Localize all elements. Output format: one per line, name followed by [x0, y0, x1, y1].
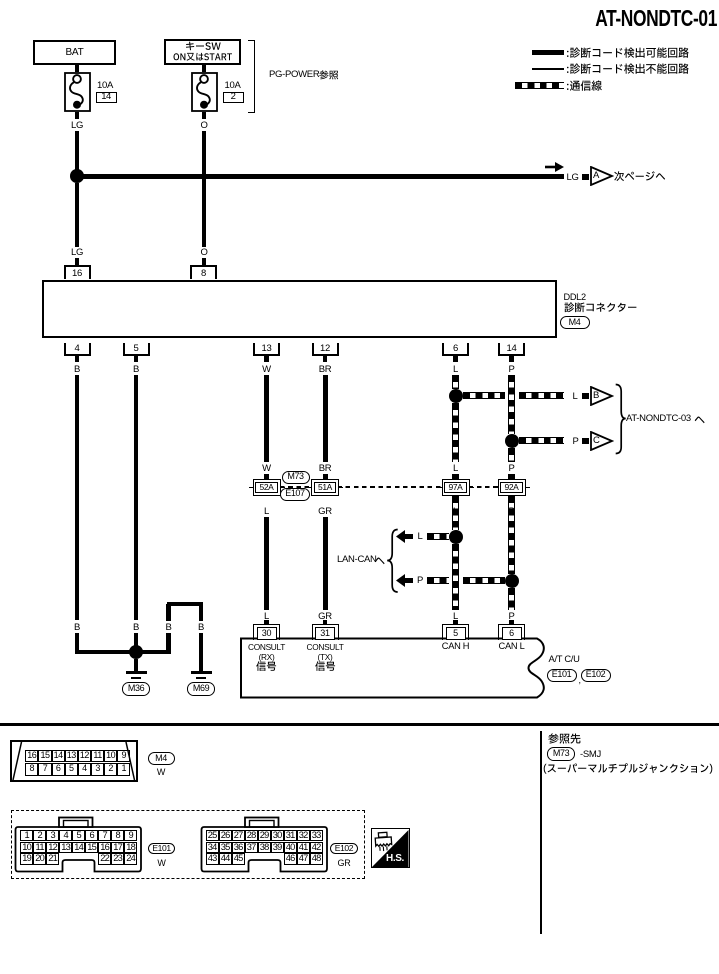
junction B node — [129, 645, 143, 659]
wire B pin4 down upper — [75, 375, 80, 620]
legend comm line sample — [515, 82, 564, 89]
label L above CAN H pin — [453, 612, 458, 622]
ground symbol M36 — [126, 671, 147, 674]
label スーパーマルチプルジャンクション — [543, 763, 713, 775]
ref oval E101 at box — [547, 669, 577, 682]
legend thin line sample — [532, 68, 564, 70]
ground ref oval M36 — [122, 682, 151, 696]
label P above 92A — [508, 464, 514, 474]
label B pin4 inline — [74, 623, 80, 633]
label LG at next-page arrow — [567, 173, 579, 183]
wire P comm to LAN arrow seg1 — [427, 577, 449, 584]
wire LG below fuse14 — [75, 112, 80, 119]
pin 6 bottom of DDL2 — [442, 343, 469, 356]
page ref triangle B — [590, 386, 614, 406]
wire stub below pin — [509, 356, 514, 363]
label L LAN-CAN — [418, 532, 423, 542]
label 参照先 — [548, 733, 581, 746]
H.S. hand-side logo — [371, 828, 410, 868]
label W above 52A — [262, 464, 271, 474]
connector 97A — [442, 479, 470, 496]
label L above pin30 — [264, 612, 269, 622]
wire LG horizontal to next page — [77, 174, 564, 179]
label W pin13 — [262, 365, 271, 375]
label B jog right — [198, 623, 204, 633]
label CAN H — [442, 642, 469, 651]
junction LG node — [70, 169, 84, 183]
wire P comm down to 92A — [508, 448, 515, 462]
wire B pin5 down upper — [134, 375, 139, 620]
pin 5 bottom of DDL2 — [123, 343, 150, 356]
wire L comm below junction — [452, 544, 459, 610]
label PG-POWER参照 — [269, 70, 319, 80]
label 次ページへ — [614, 171, 665, 183]
label L below 97A — [453, 507, 458, 517]
label BR pin12 — [319, 365, 332, 375]
wire BR stub to 51A — [323, 474, 328, 480]
ref oval E102 at box — [581, 669, 611, 682]
dashed SMJ line — [280, 486, 498, 488]
pin 12 bottom of DDL2 — [312, 343, 339, 356]
connector 52A — [253, 479, 281, 496]
label A/T C/U — [549, 654, 580, 663]
wire B pin4 down lower — [75, 633, 80, 652]
label LG above pin16 — [71, 248, 83, 258]
wire L 52A down — [264, 517, 269, 610]
pin 30 CONSULT RX — [253, 624, 280, 640]
legend thick line sample — [532, 50, 564, 55]
pin 6 CAN L — [498, 624, 525, 640]
wire B pin5 down lower — [134, 633, 139, 648]
label CONSULT TX — [307, 643, 344, 651]
label comma — [579, 676, 581, 685]
ref oval M4 face — [148, 752, 175, 766]
label P at C triangle — [573, 437, 579, 447]
label B pin5 — [133, 365, 139, 375]
fuse 14 10A — [64, 72, 91, 112]
page ref triangle A — [590, 166, 614, 186]
label P LAN-CAN — [417, 576, 423, 586]
wire LG to junction — [75, 131, 80, 176]
brace LAN-CAN — [385, 528, 399, 594]
PG-POWER bracket — [248, 40, 255, 113]
ref oval M73 bottom — [547, 747, 576, 761]
label 10A fuse2 — [224, 81, 240, 91]
wire BAT to fuse 14 — [75, 65, 80, 72]
junction L comm lower — [449, 530, 463, 544]
wire B horizontal to jog — [75, 650, 171, 655]
label B pin4 — [74, 365, 80, 375]
wire stub to pin8 — [202, 258, 207, 265]
ground ref oval M69 — [187, 682, 216, 696]
label L at B triangle — [573, 392, 578, 402]
fuse number box 14 — [96, 92, 117, 103]
legend text comm line — [566, 80, 602, 93]
wire L comm down to 97A — [452, 403, 459, 462]
label P above CAN L pin — [508, 612, 514, 622]
ground symbol M69 — [191, 671, 212, 674]
label 診断コネクター — [564, 302, 637, 314]
wire stub below pin — [323, 356, 328, 363]
pin 31 CONSULT TX — [312, 624, 339, 640]
reference column divider — [540, 731, 542, 934]
label GR above pin31 — [318, 612, 332, 622]
label L above 97A — [453, 464, 458, 474]
wire B jog left leg lower — [166, 633, 171, 654]
wire O to pin8 — [202, 131, 207, 247]
legend text detectable circuit — [566, 47, 689, 60]
wire B jog top — [167, 602, 204, 607]
label P pin14 — [508, 365, 514, 375]
title AT-NONDTC-01 — [595, 7, 717, 31]
label O above pin8 — [200, 248, 207, 258]
wire P comm stub to 92A — [508, 474, 515, 480]
connector 92A — [498, 479, 526, 496]
arrow to LAN-CAN L — [395, 529, 414, 544]
wire stub below pin — [453, 356, 458, 363]
wire B jog right leg upper — [199, 604, 204, 621]
node A/T C/U box — [239, 636, 549, 700]
label CONSULT RX — [248, 643, 285, 651]
fuse 2 10A — [191, 72, 218, 112]
wire L comm junction to B triangle — [463, 392, 506, 399]
wire L comm pin6 down — [452, 375, 459, 389]
wire L comm stub to 97A — [452, 474, 459, 480]
brace AT-NONDTC-03 — [615, 383, 628, 455]
wire O below fuse2 — [202, 112, 207, 119]
label B jog left — [165, 623, 171, 633]
pin 5 CAN H — [442, 624, 469, 640]
wire GR 51A down — [323, 517, 328, 610]
pin 8 top of DDL2 — [190, 265, 217, 279]
wire stub below pin — [75, 356, 80, 363]
wire P comm to LAN arrow seg2 — [463, 577, 505, 584]
wire stub square C — [582, 438, 589, 444]
connector face M4 16-pin — [10, 740, 138, 782]
wire stub below pin — [264, 356, 269, 363]
connector ref oval M4 — [560, 316, 590, 330]
wire BR pin12 down — [323, 375, 328, 462]
wire stub square B — [582, 393, 589, 399]
wire W pin13 down — [264, 375, 269, 462]
arrow to LAN-CAN P — [395, 573, 414, 588]
wire LG junction down — [75, 183, 80, 247]
connector face E101 24-pin — [14, 816, 145, 873]
wire P comm pin14 down — [508, 375, 515, 434]
junction L comm upper — [449, 389, 463, 403]
label O — [200, 121, 207, 131]
label LAN-CANへ — [337, 555, 377, 565]
wire P comm below junction — [508, 588, 515, 610]
legend text undetectable circuit — [566, 63, 689, 76]
arrow right above wire end — [545, 161, 566, 173]
SMJ oval M73 — [282, 471, 310, 484]
pin 16 top of DDL2 — [64, 265, 91, 279]
wire L comm to LAN arrow — [427, 533, 449, 540]
wire B jog left leg upper — [166, 604, 171, 621]
node key switch box — [164, 39, 241, 65]
wire stub below pin — [134, 356, 139, 363]
wire P comm 92A down — [508, 496, 515, 574]
label B pin5 inline — [133, 623, 139, 633]
label CAN L — [499, 642, 525, 651]
label LG — [71, 121, 83, 131]
label 10A fuse14 — [97, 81, 113, 91]
fuse number box 2 — [223, 92, 244, 103]
label L below 52A — [264, 507, 269, 517]
junction P comm lower — [505, 574, 519, 588]
page ref triangle C — [590, 431, 614, 451]
node DDL2 diagnostic connector box — [42, 280, 558, 338]
wire stub to pin16 — [75, 258, 80, 265]
wire key switch to fuse 2 — [202, 65, 207, 72]
label GR below 51A — [318, 507, 332, 517]
wire L comm 97A down — [452, 496, 459, 530]
label DDL2 — [564, 293, 586, 302]
wire W stub to 52A — [264, 474, 269, 480]
junction P comm — [505, 434, 519, 448]
label L pin6 — [453, 365, 458, 375]
pin 13 bottom of DDL2 — [253, 343, 280, 356]
wire B jog right leg lower — [199, 633, 204, 671]
label P below 92A — [508, 507, 514, 517]
separator line — [0, 723, 719, 726]
wire B to ground M36 — [134, 659, 139, 671]
label AT-NONDTC-03へ — [626, 414, 691, 424]
pin 4 bottom of DDL2 — [64, 343, 91, 356]
dashed box around E101 E102 — [11, 810, 365, 879]
label -SMJ — [580, 750, 601, 760]
pin 14 bottom of DDL2 — [498, 343, 525, 356]
label BR above 51A — [319, 464, 332, 474]
connector 51A — [311, 479, 339, 496]
connector face E102 24-pin — [200, 816, 331, 873]
SMJ oval E107 — [280, 488, 310, 501]
wire P comm junction to C triangle — [519, 437, 565, 444]
wire L comm junction to B triangle part2 — [519, 392, 565, 399]
node BAT battery feed box — [33, 40, 116, 65]
wire stub square next-page — [582, 174, 589, 180]
label W under M4 oval — [157, 768, 165, 777]
